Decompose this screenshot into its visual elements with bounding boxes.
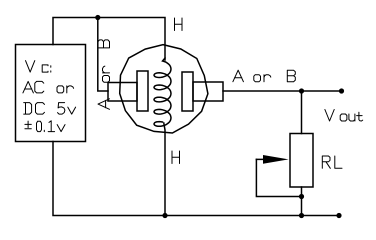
label plus-minus 0.1v: [25, 121, 65, 132]
label H heater top: [175, 18, 183, 31]
label DC 5v: [24, 103, 76, 115]
label RL: [322, 156, 342, 168]
node: top junction A: [95, 15, 100, 20]
wiper arrowhead: [263, 155, 289, 164]
node: wiper junction: [299, 194, 304, 199]
node: RL bottom junction: [299, 213, 304, 218]
pin B right: [193, 82, 223, 101]
node: Vout terminal: [339, 88, 344, 93]
wire: box top to heater top node: [53, 18, 165, 61]
wire: right pin B to Vout terminal: [223, 90, 342, 92]
label H heater bottom: [172, 151, 180, 164]
wire: heater bottom lead: [164, 123, 165, 216]
label AC or: [23, 81, 74, 93]
label A or B output: [233, 70, 295, 82]
voltage source box Vc: [16, 45, 86, 142]
label Vc:: [26, 61, 51, 73]
resistor RL body: [290, 134, 313, 188]
electrode plate right: [182, 72, 193, 111]
wire: wiper arrow shaft: [256, 158, 272, 160]
sensor body circle: [120, 45, 208, 133]
heater coil: [154, 58, 171, 126]
wire: node A down to left pin: [98, 18, 108, 92]
wire: wiper L-shape to node: [256, 159, 301, 196]
wire: box bottom to ground bus: [53, 142, 339, 216]
node: output junction: [299, 88, 304, 93]
wire: output node down to RL: [301, 91, 303, 134]
node: bottom terminal: [336, 213, 341, 218]
node: heater bottom junction: [162, 213, 167, 218]
label A or B rotated: [98, 40, 110, 109]
label Vout: [325, 110, 363, 122]
electrode plate left: [137, 71, 148, 111]
pin A left: [108, 83, 137, 102]
wire: RL bottom to bus: [301, 187, 303, 216]
